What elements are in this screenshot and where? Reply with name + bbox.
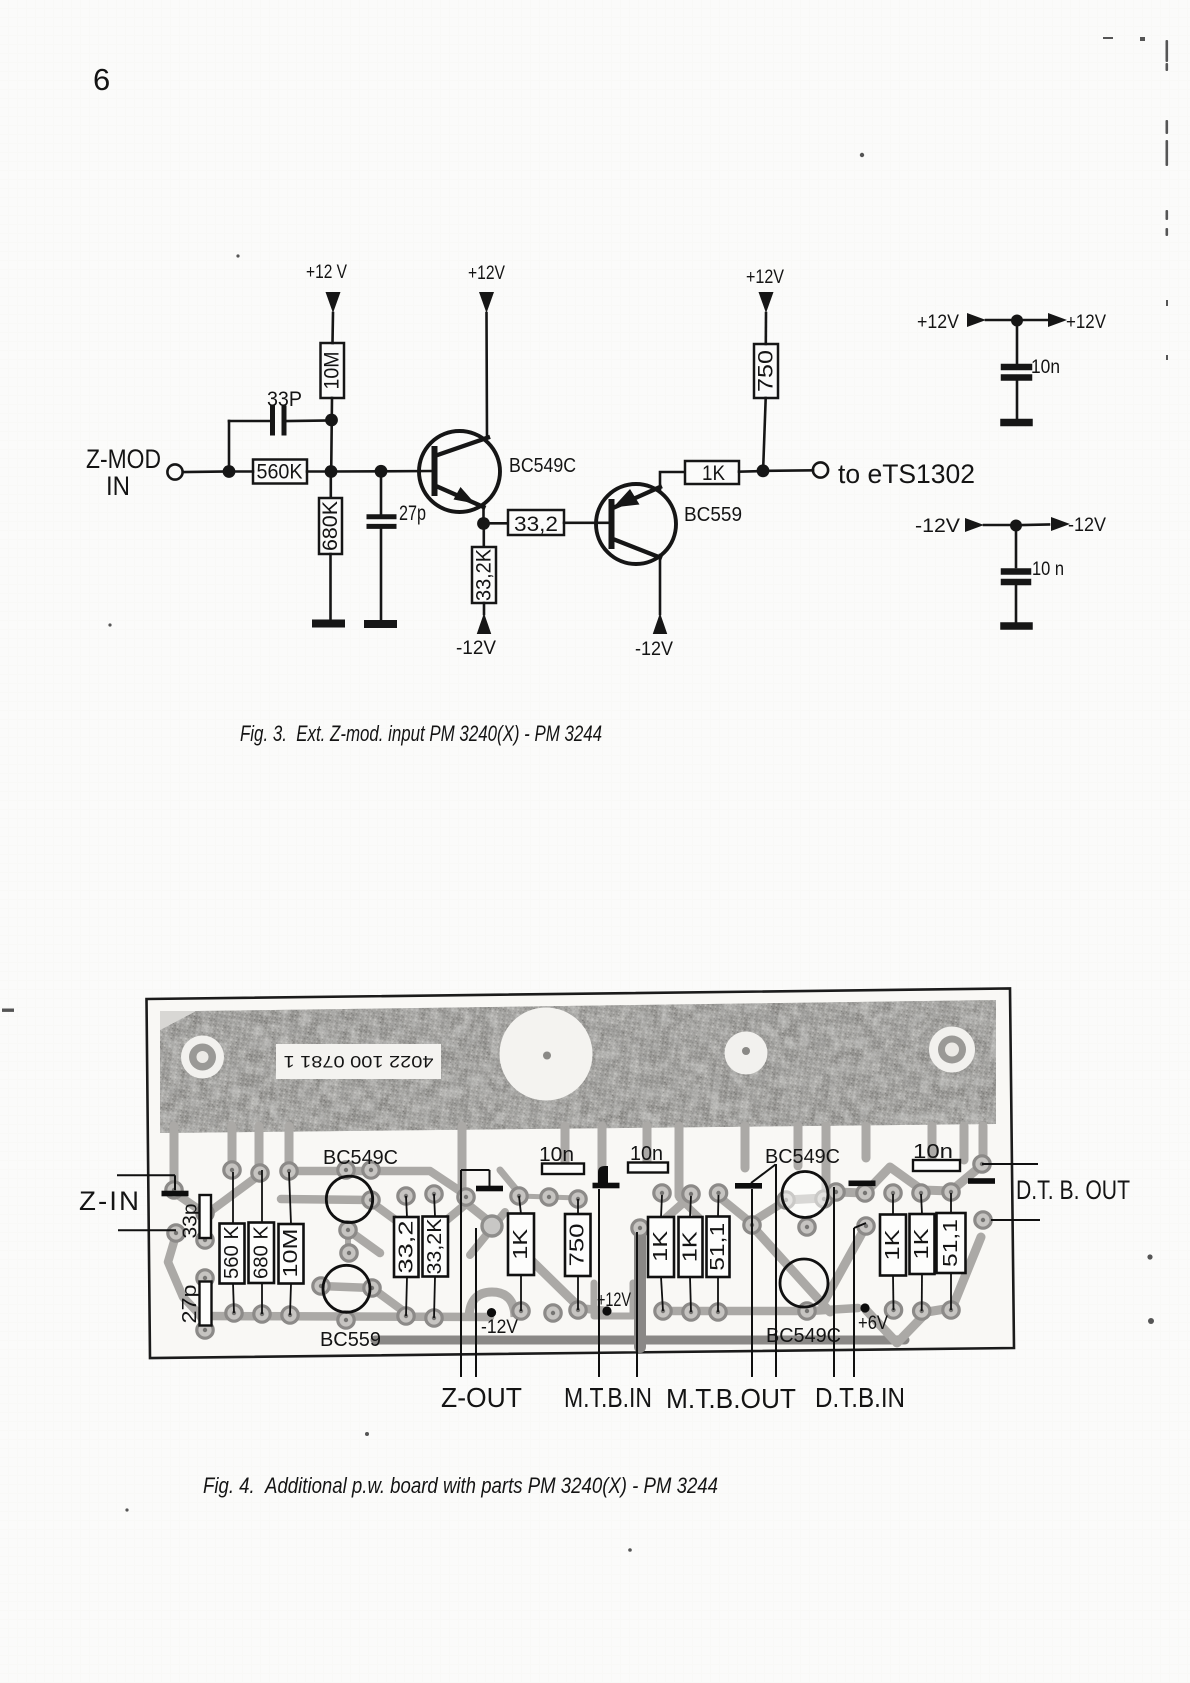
node H junction (1010, 520, 1022, 532)
trace Q5 right chain (786, 1192, 865, 1200)
trace right lower V (866, 1308, 951, 1343)
trace to D.T.B.OUT top pad (951, 1166, 981, 1191)
pads (166, 1156, 991, 1338)
svg-text:10n: 10n (630, 1143, 663, 1165)
resistor 1K r1 body (661, 1195, 662, 1217)
trace rail into 27p pad (200, 1316, 205, 1328)
svg-text:33,2K: 33,2K (424, 1218, 446, 1275)
power arrow +12V in (967, 313, 986, 327)
resistor 1K r2 body (690, 1196, 691, 1217)
svg-text:BC549C: BC549C (509, 455, 576, 477)
resistor 750 body (577, 1199, 579, 1214)
part number label 4022 100 0781 1 (276, 1044, 441, 1079)
flag M.T.B.OUT (751, 1165, 776, 1184)
transistor Q2 BC559 (596, 484, 676, 564)
callout Z-OUT lines (460, 1170, 462, 1377)
svg-text:51,1: 51,1 (707, 1223, 729, 1271)
trace Z-IN pad to 33p (175, 1193, 204, 1213)
wire node G to +12V out arrow (1023, 319, 1048, 322)
node D junction (27p) (375, 465, 388, 478)
Fig.4 board frame (147, 989, 1015, 1359)
svg-text:BC559: BC559 (684, 504, 742, 526)
svg-text:to eTS1302: to eTS1302 (838, 459, 975, 489)
wire C3 to ground (1016, 381, 1019, 419)
transistor Q4 BC559 circle (323, 1265, 370, 1312)
svg-text:+12V: +12V (746, 267, 784, 288)
svg-text:33P: 33P (267, 388, 302, 411)
trace 750 bottom to +12V pad (578, 1308, 607, 1311)
svg-text:IN: IN (106, 471, 130, 501)
callout D.T.B.OUT lines (982, 1163, 1038, 1165)
wire node F to output (769, 469, 813, 472)
svg-text:10M: 10M (321, 352, 344, 390)
trace mid hatch diagonal (470, 1212, 505, 1255)
terminal bar M.T.B.OUT (735, 1183, 762, 1189)
node E junction (477, 517, 490, 530)
trace 10M top pad along top to Z-OUT pad (289, 1171, 466, 1195)
trace mid top chain (500, 1170, 519, 1193)
svg-text:+12 V: +12 V (306, 262, 347, 283)
trace 33p bottom S-curve to bottom rail (168, 1235, 200, 1315)
capacitor 27p body (200, 1282, 212, 1326)
trace bottom to +6V (810, 1308, 858, 1311)
resistor R 10M (321, 343, 345, 398)
svg-text:M.T.B.IN: M.T.B.IN (564, 1382, 652, 1413)
svg-text:Z-MOD: Z-MOD (86, 444, 161, 474)
svg-text:1K: 1K (679, 1230, 701, 1262)
trace right cluster zigzag (865, 1167, 951, 1193)
svg-text:BC549C: BC549C (766, 1325, 841, 1347)
svg-text:+12V: +12V (597, 1290, 631, 1311)
trace into Q3 left (281, 1199, 371, 1200)
transistor Q5 BC549C circle (782, 1172, 828, 1218)
callout Z-IN lines (117, 1174, 175, 1176)
svg-text:D.T. B. OUT: D.T. B. OUT (1016, 1175, 1130, 1205)
resistor 1K mid body (519, 1196, 521, 1214)
wire Q1 emitter to node E (482, 507, 485, 524)
svg-text:+12V: +12V (1066, 312, 1106, 333)
capacitor C4 10n (1004, 572, 1028, 583)
transistor Q6 BC549C circle (780, 1259, 828, 1307)
node C junction (main line / 680K) (325, 465, 338, 478)
resistor 33,2 body (406, 1196, 407, 1217)
trace Q4 left pad (321, 1286, 372, 1288)
wire node A up to 33P branch (228, 421, 231, 472)
power -12V arrow (33,2K) (477, 613, 492, 634)
node G junction (1011, 315, 1023, 327)
wire node G down to C3 (1016, 327, 1019, 363)
wire C1 to node B (287, 419, 332, 422)
svg-text:10M: 10M (280, 1229, 302, 1278)
power -12V arrow (Q2) (653, 613, 668, 634)
svg-text:+12V: +12V (468, 263, 505, 284)
wire to node G (986, 319, 1011, 322)
wire input to node A (183, 470, 229, 473)
wire to capacitor C1 (229, 420, 270, 423)
wire node H down to C4 (1015, 532, 1018, 567)
wire 33,2 to Q2 base (564, 521, 611, 524)
wire Q2 emitter up and to 1K (660, 472, 685, 490)
trace between Q3 and Q4 (345, 1232, 351, 1250)
bottom bus dark (375, 1336, 905, 1345)
power arrow -12V in (965, 518, 984, 532)
bottom rail trace left (200, 1316, 490, 1317)
svg-text:10n: 10n (539, 1144, 574, 1166)
trace Q3 right pad diagonal down (371, 1202, 405, 1227)
wire Q1 collector to +12V (485, 313, 488, 438)
trace -12V arch (469, 1292, 515, 1317)
svg-text:10n: 10n (913, 1141, 953, 1163)
power +12V arrow (10M) (326, 292, 341, 313)
svg-text:33,2: 33,2 (395, 1221, 417, 1274)
svg-text:4022 100 0781 1: 4022 100 0781 1 (284, 1052, 434, 1071)
capacitor 33p body (200, 1195, 212, 1238)
bracket middle hole (725, 1032, 768, 1075)
svg-text:10 n: 10 n (1032, 559, 1064, 580)
svg-text:-12V: -12V (915, 516, 960, 537)
svg-text:1K: 1K (510, 1228, 532, 1260)
board-to-bracket stub leads (174, 1126, 983, 1196)
wire 1K to node F (739, 470, 757, 473)
svg-text:Z-IN: Z-IN (79, 1186, 141, 1216)
svg-text:33,2: 33,2 (514, 513, 558, 536)
trace right descending diagonal (953, 1237, 981, 1306)
resistor R 680K (329, 472, 332, 499)
resistor 51,1 r body (717, 1195, 720, 1216)
svg-text:+6V: +6V (858, 1313, 888, 1334)
resistor 33,2K body (434, 1194, 435, 1216)
metal bracket halftone band (160, 1000, 996, 1133)
resistor 1K r3 body (892, 1194, 894, 1215)
wire node D to Q1 base (381, 470, 434, 473)
resistor R 1K (685, 461, 739, 484)
wire 750 to +12V arrow (764, 313, 767, 344)
svg-text:750: 750 (755, 350, 778, 392)
svg-text:560 K: 560 K (221, 1225, 243, 1279)
trace right long diagonal down-left (825, 1226, 866, 1300)
transistor Q3 BC549C circle (326, 1176, 372, 1222)
svg-text:27p: 27p (179, 1285, 201, 1324)
wire C4 to ground (1015, 585, 1018, 622)
wire node H to -12V out arrow (1022, 523, 1049, 526)
svg-text:-12V: -12V (1068, 515, 1106, 536)
svg-text:560K: 560K (257, 461, 303, 484)
dark vertical trace M.T.B.IN (634, 1228, 646, 1347)
svg-text:1K: 1K (702, 462, 725, 485)
wire 10M down through node B to main line (330, 398, 333, 472)
trace 560K top pad to 33p (208, 1176, 258, 1213)
resistor R 560K (253, 460, 307, 484)
power arrow +12V out (1048, 313, 1067, 327)
resistor 680K body (261, 1170, 263, 1222)
trace big pad into Q5 (752, 1198, 790, 1222)
svg-text:+12V: +12V (917, 312, 959, 333)
node F junction (757, 464, 770, 477)
wire 10M to +12V arrow (331, 313, 334, 343)
callout M.T.B.IN lines (598, 1189, 600, 1377)
svg-text:M.T.B.OUT: M.T.B.OUT (666, 1383, 796, 1414)
svg-text:BC559: BC559 (320, 1329, 381, 1351)
resistor 51,1 r5 body (950, 1193, 952, 1213)
bracket big hole (500, 1008, 593, 1101)
trace left of Q5 (679, 1198, 700, 1218)
ground (C4) (1004, 622, 1029, 630)
wire 33,2K to -12V arrow (483, 603, 486, 614)
trace right-mid diagonals to big pad (718, 1196, 750, 1222)
wire 680K to ground (329, 554, 332, 620)
wire Q2 collector to -12V arrow (659, 555, 662, 614)
callout M.T.B.OUT lines (751, 1189, 753, 1377)
node B junction (10M / 33P) (325, 414, 338, 427)
resistor 1K r4 body (921, 1194, 922, 1214)
svg-text:680 K: 680 K (251, 1225, 273, 1279)
resistor R 750 (754, 344, 778, 398)
ground (680K) (316, 620, 341, 628)
wire node A to 560K (235, 470, 253, 473)
svg-text:Z-OUT: Z-OUT (441, 1382, 522, 1413)
capacitor C3 10n (1004, 367, 1029, 378)
ground (27p) (368, 620, 393, 628)
bracket screw hole right (929, 1027, 975, 1073)
svg-text:51,1: 51,1 (940, 1219, 962, 1267)
resistor 560K body (232, 1172, 234, 1223)
svg-text:750: 750 (567, 1224, 589, 1267)
wire 27p to ground (380, 529, 383, 620)
capacitor 10n #3 (913, 1160, 960, 1171)
terminal bar Z-OUT (476, 1186, 503, 1192)
resistor 10M body (289, 1172, 291, 1224)
svg-text:BC549C: BC549C (323, 1147, 398, 1169)
svg-text:6: 6 (93, 62, 110, 97)
input terminal Z-MOD IN (167, 464, 182, 479)
terminal bar M.T.B.IN with flag (593, 1183, 620, 1189)
power +12V arrow (Q1) (479, 292, 494, 313)
svg-text:-12V: -12V (481, 1317, 518, 1338)
terminal bar Z-IN (162, 1191, 189, 1197)
svg-text:10n: 10n (1031, 357, 1060, 378)
power arrow -12V out (1051, 517, 1070, 531)
svg-text:D.T.B.IN: D.T.B.IN (815, 1382, 905, 1413)
bracket screw hole left (181, 1036, 224, 1079)
wire to node H (984, 524, 1010, 527)
svg-text:-12V: -12V (635, 639, 673, 660)
trace Z-OUT pad diagonals (466, 1203, 491, 1223)
output terminal to eTS1302 (813, 462, 828, 477)
capacitor C1 33P (273, 408, 285, 433)
resistor R 33,2K (482, 530, 485, 547)
svg-text:-12V: -12V (456, 638, 496, 659)
svg-text:27p: 27p (399, 502, 426, 525)
trace Q6 diagonal (753, 1227, 830, 1312)
svg-text:33,2K: 33,2K (473, 549, 496, 601)
trace mid diagonal 1K to 750 (531, 1260, 578, 1306)
terminal bar D.T.B.OUT (968, 1178, 995, 1184)
trace right-mid bottom chain (663, 1307, 810, 1316)
svg-text:680K: 680K (319, 501, 342, 551)
wire 560K to node C (307, 470, 331, 473)
callout D.T.B.IN lines (833, 1187, 835, 1377)
svg-text:1K: 1K (882, 1229, 904, 1261)
bracket bevel corner (160, 1011, 196, 1030)
svg-text:1K: 1K (650, 1230, 672, 1262)
capacitor 10n #1 (542, 1164, 584, 1175)
capacitor C2 27p (380, 471, 383, 514)
terminal bar D.T.B.IN (849, 1181, 876, 1187)
svg-text:33p: 33p (180, 1204, 202, 1239)
trace +12V bracket (594, 1283, 633, 1316)
trace pad under Q3 to 33,2 (348, 1230, 380, 1253)
capacitor 10n #2 (628, 1163, 668, 1173)
wire node C to node D (331, 470, 381, 473)
node A junction (223, 465, 236, 478)
transistor Q1 BC549C (419, 431, 500, 512)
trace Q4 diagonal to bottom (372, 1288, 406, 1313)
power +12V arrow (750) (759, 292, 774, 313)
svg-text:1K: 1K (911, 1228, 933, 1260)
svg-text:Fig. 4. Additional p.w. board: Fig. 4. Additional p.w. board with parts… (203, 1473, 718, 1498)
svg-text:Fig. 3. Ext. Z-mod. input PM: Fig. 3. Ext. Z-mod. input PM 3240(X) - P… (240, 721, 602, 746)
wire 750 to node F (763, 398, 765, 465)
ground (C3) (1004, 419, 1029, 427)
resistor R 33,2 (490, 522, 508, 525)
